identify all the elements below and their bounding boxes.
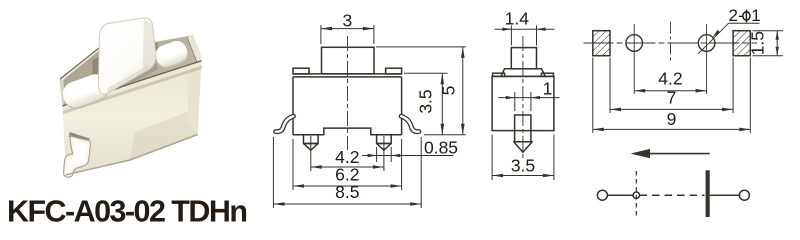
svg-text:1: 1 — [543, 79, 553, 99]
svg-text:7: 7 — [667, 88, 677, 108]
svg-text:8.5: 8.5 — [335, 182, 359, 202]
svg-text:9: 9 — [667, 109, 677, 129]
svg-text:3.5: 3.5 — [416, 89, 436, 113]
svg-text:0.85: 0.85 — [424, 138, 458, 158]
svg-text:4.2: 4.2 — [658, 69, 682, 89]
svg-text:KFC-A03-02 TDHn: KFC-A03-02 TDHn — [7, 195, 246, 229]
svg-text:5: 5 — [439, 86, 459, 96]
svg-text:1: 1 — [751, 6, 760, 25]
svg-text:3: 3 — [343, 11, 353, 31]
svg-text:1.4: 1.4 — [505, 9, 530, 29]
svg-text:2-: 2- — [729, 6, 744, 25]
svg-text:1.5: 1.5 — [748, 31, 768, 55]
svg-text:3.5: 3.5 — [511, 156, 535, 176]
